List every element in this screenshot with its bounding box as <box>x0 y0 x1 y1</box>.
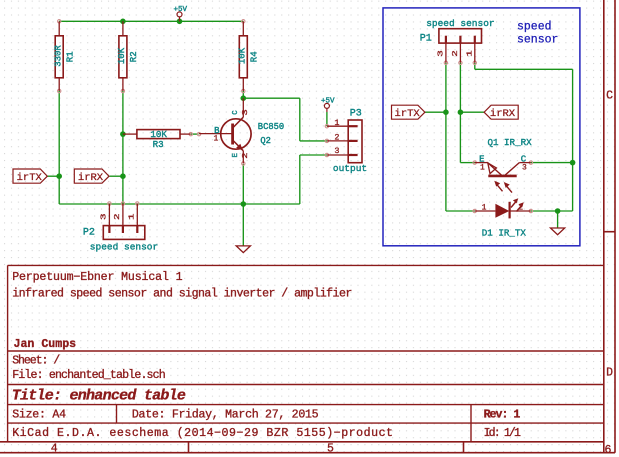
title block line above Size row <box>8 404 604 406</box>
svg-text:6: 6 <box>605 444 612 457</box>
wire +5V to P3 pin1 <box>326 112 328 126</box>
svg-text:10K: 10K <box>237 47 247 64</box>
svg-text:Rev: 1: Rev: 1 <box>484 409 521 422</box>
svg-text:irRX: irRX <box>490 108 516 120</box>
blue outline box <box>383 8 580 246</box>
resistor R4 <box>237 21 259 91</box>
wire Q2 emitter down <box>242 164 244 204</box>
svg-text:+5V: +5V <box>321 98 335 106</box>
collector pin <box>242 98 244 117</box>
cathode pin <box>510 210 531 212</box>
phototransistor Q1 <box>475 137 532 192</box>
emission arrow 2 <box>517 206 522 212</box>
title block left line <box>7 265 9 441</box>
ground main <box>236 246 250 253</box>
svg-text:3: 3 <box>334 146 339 156</box>
svg-text:R4: R4 <box>249 51 259 62</box>
collector diagonal <box>505 163 520 176</box>
svg-text:speed sensor: speed sensor <box>90 241 158 252</box>
wire irRX label stub <box>110 175 123 177</box>
ground box <box>551 228 565 235</box>
title block separator Size/Date <box>116 405 118 424</box>
emission arrow 1 <box>511 202 516 208</box>
SUBCIRCUIT BOX <box>383 8 580 246</box>
svg-text:3: 3 <box>242 109 250 115</box>
power +5V at P3 <box>321 98 335 112</box>
emitter pin <box>242 151 244 164</box>
wire to Q1 emitter <box>460 162 474 164</box>
pin end circles box <box>444 61 447 64</box>
svg-text:P1: P1 <box>420 34 432 45</box>
wire irRX stub box <box>460 111 484 113</box>
svg-text:irTX: irTX <box>17 172 43 184</box>
svg-text:E: E <box>232 152 240 157</box>
LED triangle <box>495 204 509 218</box>
junction collector node <box>241 95 247 101</box>
svg-text:2: 2 <box>334 133 339 143</box>
svg-text:3: 3 <box>437 50 445 57</box>
hierarchical label irRX <box>74 169 109 184</box>
wire D1 cathode to right vertical <box>531 210 573 212</box>
hierarchical label irTX box <box>392 105 425 120</box>
emitter arrow <box>236 144 243 151</box>
svg-text:Id: 1/1: Id: 1/1 <box>484 427 521 440</box>
svg-text:infrared speed sensor and sign: infrared speed sensor and signal inverte… <box>12 287 352 300</box>
svg-text:P2: P2 <box>83 228 95 239</box>
svg-text:Perpetuum−Ebner Musical 1: Perpetuum−Ebner Musical 1 <box>12 271 182 284</box>
svg-text:4: 4 <box>51 442 58 455</box>
connector P2 <box>83 204 158 253</box>
svg-text:Q2: Q2 <box>260 136 271 146</box>
hierarchical label irRX box <box>484 105 518 120</box>
anode pin <box>475 210 496 212</box>
svg-text:1: 1 <box>482 203 487 212</box>
svg-text:speed: speed <box>517 20 552 33</box>
wire collector node to right <box>243 97 299 99</box>
junction R2 top <box>120 19 126 25</box>
svg-text:5: 5 <box>327 442 334 455</box>
svg-text:irTX: irTX <box>395 108 421 120</box>
svg-text:2: 2 <box>518 203 523 212</box>
base bar <box>231 124 234 145</box>
MAIN CIRCUIT <box>13 6 367 253</box>
resistor R2 <box>117 21 139 91</box>
wire +5V rail top <box>59 20 243 22</box>
svg-text:R1: R1 <box>65 51 75 62</box>
resistor R3 <box>123 129 191 150</box>
connector P1 <box>420 18 495 63</box>
svg-text:1: 1 <box>466 50 474 57</box>
hierarchical label irTX <box>13 169 47 184</box>
junction ground right <box>555 208 561 214</box>
wire ground rail horizontal <box>59 203 300 205</box>
frame right inner border <box>603 0 605 453</box>
junction +5V rail <box>177 19 183 25</box>
wire to P3 pin2 <box>300 140 327 142</box>
svg-text:3: 3 <box>101 214 109 221</box>
wire P1 pin2 vertical to Q1 E level <box>459 63 461 163</box>
connector P3 <box>327 109 367 175</box>
pin end circles left circuit <box>58 20 61 23</box>
svg-text:10K: 10K <box>117 47 127 64</box>
title block line above Title <box>8 384 604 386</box>
wire P1 pin1 to right <box>475 68 573 70</box>
wire Q1 collector to right vertical <box>531 162 573 164</box>
svg-text:BC850: BC850 <box>258 122 284 132</box>
emitter diagonal <box>233 140 244 151</box>
emitter pin <box>475 162 488 164</box>
junction irTX box <box>443 109 449 115</box>
wire to P3 pin3 <box>300 154 327 156</box>
svg-text:2: 2 <box>242 152 250 158</box>
svg-text:R2: R2 <box>129 51 139 62</box>
svg-text:1: 1 <box>129 214 137 221</box>
svg-text:2: 2 <box>114 214 122 221</box>
svg-text:Q1 IR_RX: Q1 IR_RX <box>488 137 533 148</box>
svg-text:R3: R3 <box>153 139 164 150</box>
frame bottom tick 2 <box>463 442 465 453</box>
svg-text:C: C <box>606 89 613 102</box>
wire irTX stub box <box>425 111 446 113</box>
wire R4 bottom to collector node <box>242 91 244 98</box>
title block line above Sheet <box>8 350 604 352</box>
wire vertical down to P3 pin2 level <box>299 98 301 141</box>
resistor R1 <box>53 21 75 91</box>
light arrow 2 <box>507 186 513 193</box>
junction irRX box <box>458 109 464 115</box>
cathode bar <box>509 202 511 219</box>
svg-text:KiCad E.D.A. eeschema (2014−0: KiCad E.D.A. eeschema (2014−09−29 BZR 51… <box>12 427 393 440</box>
frame right tick C/D <box>604 231 615 233</box>
base bar <box>488 175 516 178</box>
svg-text:1: 1 <box>480 164 485 173</box>
title block line above KiCad row <box>8 422 604 424</box>
svg-text:3: 3 <box>522 164 527 173</box>
LED D1 <box>475 198 531 238</box>
wire P1 pin3 vertical down to D1 level <box>445 63 447 211</box>
frame right outer border <box>614 0 616 453</box>
emitter arrow open <box>488 163 497 174</box>
collector pin <box>519 162 531 164</box>
svg-text:Sheet: /: Sheet: / <box>12 355 60 368</box>
svg-text:+5V: +5V <box>174 6 188 14</box>
wire ground stub box <box>557 211 559 228</box>
transistor Q2 <box>199 98 284 163</box>
wire vertical P3 pin3 to ground rail <box>299 155 301 204</box>
junction collector right <box>570 160 576 166</box>
svg-text:C: C <box>232 110 240 115</box>
svg-text:speed sensor: speed sensor <box>426 18 494 29</box>
light arrow 1 <box>497 185 503 192</box>
svg-text:P3: P3 <box>350 109 362 120</box>
svg-text:1: 1 <box>334 118 339 128</box>
wire right vertical down <box>572 69 574 211</box>
svg-text:2: 2 <box>452 50 460 57</box>
wire R1 bottom vertical to node irTX and emitter rail <box>58 91 60 204</box>
title block separator Rev column <box>470 405 472 442</box>
power +5V main rail <box>174 6 188 21</box>
svg-text:irRX: irRX <box>78 172 104 184</box>
title block top line <box>8 264 604 266</box>
svg-text:330R: 330R <box>53 45 63 67</box>
wire P1 pin1 short down <box>474 63 476 70</box>
frame bottom outer border <box>0 452 615 454</box>
frame bottom inner border <box>0 441 604 443</box>
base pin <box>199 133 232 135</box>
TITLE BLOCK <box>8 265 604 441</box>
wire to D1 anode <box>446 210 475 212</box>
svg-text:Date: Friday, March 27, 2015: Date: Friday, March 27, 2015 <box>132 409 319 422</box>
svg-text:D: D <box>606 366 613 379</box>
wire R2 bottom vertical through R3 node and irRX node <box>122 91 124 204</box>
svg-text:output: output <box>333 163 367 174</box>
wire R3 to Q2 base <box>191 133 199 135</box>
svg-text:Size: A4: Size: A4 <box>12 409 66 422</box>
svg-text:1: 1 <box>213 135 218 144</box>
svg-text:Title: enhanced table: Title: enhanced table <box>12 388 186 405</box>
wire ground stem <box>242 204 244 246</box>
junction irTX node <box>56 173 62 179</box>
svg-text:D1 IR_TX: D1 IR_TX <box>482 227 527 238</box>
svg-text:sensor: sensor <box>517 33 558 46</box>
collector diagonal <box>233 117 244 128</box>
junction R3 left node <box>120 131 126 137</box>
junction irRX node <box>120 173 126 179</box>
junction emitter/ground node <box>241 201 247 207</box>
svg-text:Jan Cumps: Jan Cumps <box>14 338 77 351</box>
frame bottom tick 1 <box>188 442 190 453</box>
emitter diagonal <box>488 163 502 176</box>
svg-text:File: enchanted_table.sch: File: enchanted_table.sch <box>12 369 165 382</box>
wire irTX label stub <box>47 175 59 177</box>
